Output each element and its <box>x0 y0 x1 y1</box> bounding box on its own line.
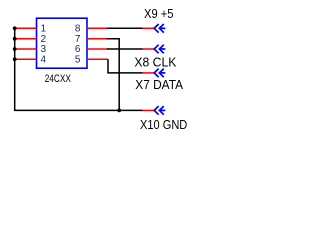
net wire SCL (pin 6 to X8) <box>107 48 143 50</box>
svg-text:X9 +5: X9 +5 <box>144 6 174 21</box>
net wire SDA (pin 5 to X7) <box>108 59 143 73</box>
svg-text:4: 4 <box>41 54 47 65</box>
net wire VCC (pin 8 to X9) <box>107 27 143 29</box>
pin 2 lead (left) <box>16 38 37 40</box>
pin 7 lead (right) <box>87 38 108 40</box>
pin 6 lead (right) <box>87 48 108 50</box>
connector X9 symbol <box>154 24 165 33</box>
connector X7 pin stub <box>142 72 154 74</box>
pin 4 lead (left) <box>16 58 37 60</box>
connector X10 pin stub <box>142 109 154 111</box>
svg-text:X10 GND: X10 GND <box>140 117 187 132</box>
svg-text:24CXX: 24CXX <box>45 73 71 85</box>
connector X9 pin stub <box>142 27 154 29</box>
pin 1 lead (left) <box>16 27 37 29</box>
pin 8 lead (right) <box>87 27 108 29</box>
IC U1 body (24CXX) <box>37 18 88 68</box>
junction dot pin 3 <box>13 47 17 51</box>
svg-text:5: 5 <box>75 54 81 65</box>
svg-text:8: 8 <box>75 23 81 34</box>
junction dot WP-GND <box>117 109 121 113</box>
GND bus vertical wire (left) <box>15 27 143 110</box>
connector X7 symbol <box>154 69 165 78</box>
connector X8 symbol <box>154 45 165 54</box>
svg-text:X8 CLK: X8 CLK <box>134 55 176 70</box>
junction dot pin 4 <box>13 57 17 61</box>
connector X8 pin stub <box>142 48 154 50</box>
pin 5 lead (right) <box>87 58 108 60</box>
svg-text:X7 DATA: X7 DATA <box>135 77 183 92</box>
junction dot pin 1 <box>13 26 17 30</box>
svg-text:1: 1 <box>41 23 47 34</box>
pin 3 lead (left) <box>16 48 37 50</box>
junction dot pin 2 <box>13 37 17 41</box>
connector X10 symbol <box>154 106 165 115</box>
net wire WP (pin 7 down to GND bus) <box>107 39 119 111</box>
